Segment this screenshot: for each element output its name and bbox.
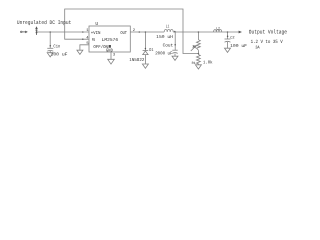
output arrow terminal (239, 31, 242, 34)
ground under Cout (172, 56, 178, 60)
svg-text:1.2 V to 35 V: 1.2 V to 35 V (251, 39, 283, 45)
svg-text:Unregulated DC Input: Unregulated DC Input (17, 20, 71, 26)
wire input horizontal (37, 31, 89, 33)
wire divider top stub (197, 32, 199, 40)
svg-text:1N5822: 1N5822 (129, 58, 145, 63)
polarity mark Cin (50, 45, 52, 47)
ground under Cin (47, 53, 53, 57)
ground under D1 (142, 64, 148, 68)
svg-text:U: U (95, 21, 98, 27)
input source arrow (21, 31, 28, 34)
svg-text:3: 3 (113, 53, 116, 58)
inductor L1 (164, 29, 173, 32)
wire pin5 OFF-ON to ground (80, 45, 89, 50)
node pin2 (139, 31, 141, 33)
node Cin tap (49, 31, 51, 33)
wire out pin2 to L1 (130, 31, 164, 33)
wire GND pin3 drop (110, 52, 112, 59)
svg-text:FB: FB (92, 38, 95, 43)
input terminal arrow (35, 26, 38, 35)
svg-text:150 uH: 150 uH (156, 35, 173, 40)
svg-text:3A: 3A (255, 45, 260, 50)
svg-text:100 uF: 100 uF (51, 53, 68, 58)
ground under GND pin (108, 59, 115, 64)
ground under OFF-ON pin (77, 50, 83, 54)
junction node dots (49, 31, 228, 54)
svg-text:+VIN: +VIN (91, 31, 101, 36)
switch mark after ON (109, 45, 111, 48)
wire L1 to output arrow (173, 31, 239, 33)
svg-text:GND: GND (106, 48, 113, 53)
node D1 tap (145, 31, 147, 33)
capacitor Cout (172, 50, 177, 53)
svg-text:C2: C2 (230, 36, 235, 41)
node pin1 (82, 31, 84, 33)
svg-text:2000 uF: 2000 uF (155, 52, 173, 57)
potentiometer R2 (191, 40, 200, 51)
svg-text:Output Voltage: Output Voltage (249, 29, 287, 36)
polarity mark C2 (227, 35, 229, 37)
node C2 tap (227, 31, 229, 33)
node divider tap (198, 31, 200, 33)
svg-text:R1: R1 (192, 61, 196, 66)
wire feedback loop FB to divider (65, 9, 199, 54)
capacitor C2 (225, 39, 231, 42)
node pin4 (82, 38, 84, 40)
polarity mark D1 (145, 48, 147, 50)
wire R1 bottom (197, 64, 199, 65)
wire Cout drop (174, 32, 176, 50)
svg-text:Cin: Cin (53, 44, 60, 50)
node FB divider junction (198, 53, 200, 55)
svg-text:100 uF: 100 uF (230, 44, 247, 49)
regulator U box LM2576 (89, 26, 130, 52)
wire D1 drop (144, 32, 146, 51)
svg-text:LM2576: LM2576 (102, 38, 119, 43)
svg-text:L2: L2 (216, 27, 220, 32)
ground under C2 (225, 48, 231, 52)
node Cout tap (174, 31, 176, 33)
svg-text:L1: L1 (166, 24, 170, 29)
ground under R1 (195, 65, 201, 69)
svg-text:D1: D1 (149, 48, 153, 53)
resistor R1 (196, 55, 200, 65)
svg-text:Cout: Cout (163, 43, 174, 48)
wire Cin drop (49, 32, 51, 48)
inductor L2 (214, 30, 222, 32)
diode D1 (143, 51, 149, 55)
svg-text:OUT: OUT (120, 31, 127, 36)
wire C2 drop (227, 32, 229, 39)
polarity mark Cout (174, 44, 176, 46)
capacitor Cin (47, 48, 53, 51)
svg-text:1.0k: 1.0k (203, 59, 213, 65)
wire pot to FB junction (197, 50, 199, 54)
